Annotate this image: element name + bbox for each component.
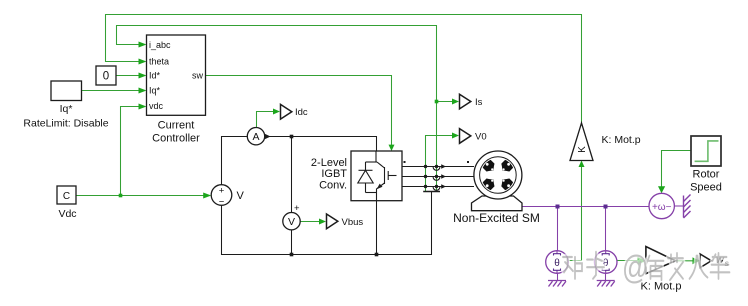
purple wire to angle sensor <box>557 207 559 281</box>
purple junction squares <box>556 205 608 209</box>
Idc tag <box>281 104 308 119</box>
wire Iq* source to controller <box>82 90 142 92</box>
arrow into Idc tag <box>273 109 280 115</box>
phase line b <box>402 176 474 178</box>
Is tag <box>460 94 483 109</box>
arrow into ws tag <box>693 257 701 264</box>
arrow into Id* port <box>139 73 147 79</box>
svg-text:@: @ <box>622 250 648 287</box>
voltmeter V <box>283 203 300 230</box>
green junction node Is tap <box>435 100 439 104</box>
svg-text:A: A <box>252 131 259 143</box>
svg-text:IGBT: IGBT <box>321 168 347 180</box>
wire theta feedback loop <box>106 15 582 124</box>
arrow into gain K2 <box>638 257 647 265</box>
svg-text:K: K <box>577 146 588 153</box>
green arrowheads <box>139 42 701 265</box>
speed sensor <box>594 251 617 274</box>
black wire converter bottom <box>376 201 378 255</box>
phase line c <box>402 186 474 188</box>
wire angle sensor to gain K <box>569 166 582 261</box>
arrow into vdc port <box>139 104 147 110</box>
black DC bus bottom rail <box>222 192 432 255</box>
arrow into Vbus tag <box>319 219 326 225</box>
svg-text:V: V <box>237 190 245 202</box>
purple mechanical shaft bus <box>522 206 649 208</box>
constant 0 block <box>96 66 116 85</box>
svg-text:Controller: Controller <box>152 133 200 145</box>
arrow into V0 tag <box>452 133 459 139</box>
svg-text:Iq*: Iq* <box>60 103 73 115</box>
phase line a <box>402 166 474 168</box>
arrow into gain K base <box>579 161 585 168</box>
svg-text:sw: sw <box>192 70 204 80</box>
arrow into theta port <box>139 59 147 65</box>
svg-text:Speed: Speed <box>690 181 722 193</box>
mechanical clamp wall <box>684 195 691 219</box>
gain K (pole pairs) <box>570 123 641 161</box>
svg-text:θ: θ <box>554 258 560 269</box>
black DC bus: A meter to converter top <box>265 137 377 152</box>
svg-text:Id*: Id* <box>149 70 161 80</box>
svg-text:Rotor: Rotor <box>693 169 720 181</box>
velocity source +w- <box>649 193 674 218</box>
ws tag <box>700 254 729 268</box>
svg-text:RateLimit: Disable: RateLimit: Disable <box>23 118 108 130</box>
2-level IGBT converter block <box>311 151 402 201</box>
synchronous machine body <box>474 151 522 199</box>
purple wire to speed sensor <box>605 207 607 281</box>
wire speed sensor to gain K2 <box>617 260 640 262</box>
svg-text:Conv.: Conv. <box>319 180 347 192</box>
black DC bus: V source top to A meter <box>222 137 248 185</box>
black wire V meter branch <box>291 137 293 255</box>
Vdc constant block <box>57 186 77 220</box>
wire V0 tap <box>426 136 454 192</box>
arrow into Iq* port <box>139 88 147 94</box>
svg-text:C: C <box>63 191 70 202</box>
V0 tag <box>460 129 487 144</box>
green junction node vdc tap <box>119 194 123 198</box>
mechanical ground under angle sensor <box>548 281 566 287</box>
ammeter A <box>247 128 270 145</box>
svg-text:V0: V0 <box>475 131 487 142</box>
wire vdc measurement to controller <box>121 107 142 196</box>
neutral bar <box>423 191 440 193</box>
svg-text:V: V <box>288 216 295 228</box>
svg-text:Iq*: Iq* <box>149 85 161 95</box>
svg-text:Is: Is <box>475 97 483 108</box>
svg-text:Non-Excited SM: Non-Excited SM <box>453 211 540 225</box>
rotor star icon <box>481 158 516 193</box>
watermark <box>563 250 730 287</box>
svg-text:Idc: Idc <box>295 107 308 118</box>
current controller block <box>147 35 206 145</box>
phase hop arcs and arrows <box>433 167 440 190</box>
arrow into Is tag <box>452 99 459 105</box>
svg-text:Current: Current <box>158 119 195 131</box>
svg-text:theta: theta <box>149 56 169 66</box>
rotor speed source block <box>690 136 722 193</box>
wire Id* constant to controller <box>116 75 141 77</box>
svg-text:−: − <box>219 196 225 207</box>
arrow sw into converter <box>389 145 395 151</box>
angle sensor theta <box>546 251 569 274</box>
synchronous machine pedestal <box>472 196 523 211</box>
wire Is tap <box>437 101 454 103</box>
IGBT with diode icon <box>358 151 397 201</box>
controlled voltage source V <box>211 185 244 208</box>
wire Vbus tap <box>300 221 319 223</box>
arrow into velocity source <box>658 186 665 193</box>
svg-text:+: + <box>219 186 225 197</box>
svg-text:+: + <box>294 203 300 214</box>
gain K2 (electrical speed) <box>641 247 682 293</box>
svg-text:Vbus: Vbus <box>342 217 364 228</box>
wire gain K2 to ws tag <box>675 260 694 262</box>
wire Vdc constant to controlled voltage source <box>76 195 206 197</box>
mechanical ground under speed sensor <box>597 281 615 287</box>
Vbus tag <box>327 214 364 229</box>
Iq* source block <box>23 81 108 130</box>
wire Idc tap <box>257 112 275 128</box>
wire i_abc feedback loop <box>117 26 437 192</box>
svg-text:K: Mot.p: K: Mot.p <box>602 134 641 146</box>
svg-text:Vdc: Vdc <box>58 208 76 220</box>
arrow into V source <box>203 193 211 199</box>
svg-text:0: 0 <box>103 71 109 83</box>
wire rotor speed source to velocity source <box>662 151 692 187</box>
phase a polarity dots <box>404 161 406 163</box>
svg-text:+ω−: +ω− <box>652 202 672 213</box>
svg-text:i_abc: i_abc <box>149 40 171 50</box>
svg-text:vdc: vdc <box>149 101 164 111</box>
arrow into i_abc port <box>139 42 147 48</box>
phase junction dots <box>424 165 438 188</box>
purple wire velocity source to clamp <box>674 205 683 207</box>
wire sw controller to converter <box>206 76 392 146</box>
DC bus junction dots <box>290 135 379 257</box>
